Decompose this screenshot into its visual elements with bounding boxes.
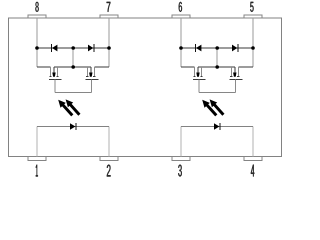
led triangle bbox=[214, 123, 219, 130]
diode D2 triangle bbox=[88, 45, 93, 52]
diode D4 cathode bar bbox=[237, 44, 239, 52]
node dot center/source bbox=[215, 65, 219, 69]
wire source bus segment bbox=[198, 66, 235, 68]
wire pin7 vertical bbox=[108, 18, 110, 67]
label pin 7 bbox=[107, 2, 111, 12]
mosfet M1 gate bar bbox=[49, 78, 62, 80]
node dot pin5/diode bbox=[251, 46, 255, 50]
diode D1 triangle bbox=[52, 45, 57, 52]
mosfet M4 source stub bbox=[230, 67, 232, 77]
mosfet M2 source stub bbox=[86, 67, 88, 77]
mosfet M3 source stub bbox=[200, 67, 202, 77]
pin number labels bbox=[35, 2, 254, 177]
node dot center/diode bbox=[215, 46, 219, 50]
light arrow left bbox=[202, 100, 217, 117]
mosfet M1 body arrow shaft bbox=[53, 67, 55, 73]
mosfet M4 body arrow shaft bbox=[234, 67, 236, 73]
wire drain pin-right segment bbox=[94, 66, 109, 68]
wire drain pin-left segment bbox=[181, 66, 194, 68]
wire pin2 vertical bbox=[108, 127, 110, 157]
pad pin 5 bbox=[244, 15, 262, 18]
mosfet M3 body arrow head bbox=[196, 73, 199, 77]
wire center vertical node bbox=[216, 48, 218, 67]
mosfet M3 drain foot bbox=[193, 76, 195, 78]
mosfet M2 body arrow head bbox=[89, 73, 92, 77]
wire pin5 vertical bbox=[252, 18, 254, 67]
wire pin6 vertical bbox=[180, 18, 182, 67]
gate lead M2 bbox=[91, 79, 93, 92]
mosfet M4 gate bar bbox=[230, 78, 243, 80]
diode D4 triangle bbox=[232, 45, 237, 52]
node dot pin8/diode bbox=[35, 46, 39, 50]
mosfet M4 drain stub bbox=[237, 67, 239, 77]
mosfet M2 drain foot bbox=[93, 76, 95, 78]
pad pin 6 bbox=[172, 15, 190, 18]
pad pin 4 bbox=[244, 156, 262, 160]
wire center vertical node bbox=[72, 48, 74, 67]
label pin 8 bbox=[35, 2, 38, 12]
node dot center/diode bbox=[71, 46, 75, 50]
package outline bbox=[9, 18, 282, 157]
gate lead M1 bbox=[54, 79, 56, 92]
wire drain pin-right segment bbox=[238, 66, 253, 68]
pad pin 7 bbox=[100, 15, 118, 18]
mosfet M1 drain stub bbox=[49, 67, 51, 77]
gate bus bbox=[55, 92, 92, 94]
wire led row bbox=[37, 126, 109, 128]
gate lead M4 bbox=[235, 79, 237, 92]
led triangle bbox=[70, 123, 75, 130]
node dot pin7/diode bbox=[107, 46, 111, 50]
pad pin 2 bbox=[100, 156, 118, 160]
label pin 1 bbox=[36, 165, 38, 177]
label pin 6 bbox=[179, 2, 182, 12]
mosfet M2 drain stub bbox=[93, 67, 95, 77]
wire source bus segment bbox=[54, 66, 91, 68]
gate lead M3 bbox=[198, 79, 200, 92]
pad pin 1 bbox=[28, 156, 46, 160]
diode D1 cathode bar bbox=[50, 44, 52, 52]
wire drain pin-left segment bbox=[37, 66, 50, 68]
mosfet M3 source foot bbox=[200, 76, 202, 78]
mosfet M2 body arrow shaft bbox=[90, 67, 92, 73]
mosfet M1 body arrow head bbox=[52, 73, 55, 77]
light arrow right bbox=[210, 99, 225, 115]
gate bus bbox=[199, 92, 236, 94]
pad pin 3 bbox=[172, 156, 190, 160]
wire diode row bbox=[181, 47, 253, 49]
diode D3 cathode bar bbox=[194, 44, 196, 52]
mosfet M3 body arrow shaft bbox=[197, 67, 199, 73]
wire diode row bbox=[37, 47, 109, 49]
wire pin1 vertical bbox=[36, 127, 38, 157]
label pin 2 bbox=[107, 165, 111, 177]
mosfet M2 gate bar bbox=[86, 78, 99, 80]
diode D3 triangle bbox=[196, 45, 201, 52]
label pin 4 bbox=[251, 165, 254, 177]
label pin 3 bbox=[178, 165, 182, 177]
wire pin8 vertical bbox=[36, 18, 38, 67]
mosfet M4 source foot bbox=[230, 76, 232, 78]
wire pin4 vertical bbox=[252, 127, 254, 157]
mosfet M1 source stub bbox=[56, 67, 58, 77]
mosfet M1 drain foot bbox=[49, 76, 51, 78]
pin pads bbox=[28, 15, 262, 161]
mosfet M3 drain stub bbox=[193, 67, 195, 77]
label pin 5 bbox=[250, 2, 253, 12]
mosfet M4 body arrow head bbox=[233, 73, 236, 77]
node dot pin6/diode bbox=[179, 46, 183, 50]
led cathode bar bbox=[75, 123, 77, 130]
light arrow right bbox=[66, 99, 81, 115]
light arrow left bbox=[58, 100, 73, 117]
diode D2 cathode bar bbox=[93, 44, 95, 52]
wire led row bbox=[181, 126, 253, 128]
mosfet M2 source foot bbox=[86, 76, 88, 78]
led cathode bar bbox=[219, 123, 221, 130]
mosfet M3 gate bar bbox=[193, 78, 206, 80]
wire pin3 vertical bbox=[180, 127, 182, 157]
pad pin 8 bbox=[28, 15, 46, 18]
mosfet M1 source foot bbox=[56, 76, 58, 78]
node dot center/source bbox=[71, 65, 75, 69]
mosfet M4 drain foot bbox=[237, 76, 239, 78]
